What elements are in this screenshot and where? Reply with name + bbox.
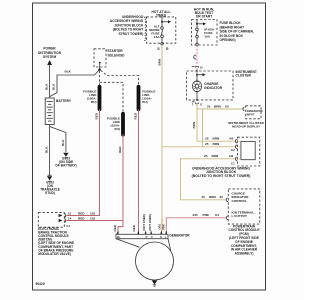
svg-text:BLK: BLK (61, 139, 65, 146)
ground G101 (55, 153, 76, 168)
wire battery negative branch to ground G101 (BLK) (50, 127, 66, 153)
svg-text:BRN: BRN (158, 58, 162, 65)
svg-text:SOLENOID: SOLENOID (108, 53, 126, 57)
svg-text:H6: H6 (229, 154, 233, 158)
svg-text:OR START: OR START (196, 15, 213, 19)
svg-text:235: 235 (193, 213, 198, 217)
svg-text:OF BATTERY): OF BATTERY) (55, 163, 76, 167)
wire ALT sense continues to generator S (158, 147, 162, 232)
svg-text:C2: C2 (231, 148, 235, 152)
generator (116, 234, 190, 280)
svg-text:CLUSTER: CLUSTER (236, 74, 252, 78)
svg-text:BRN: BRN (212, 154, 219, 158)
EBTCM module (38, 213, 70, 228)
svg-text:(NOT USED): (NOT USED) (142, 214, 146, 230)
svg-text:GENERATOR: GENERATOR (169, 234, 190, 238)
svg-text:102: 102 (90, 211, 95, 215)
svg-text:BRN: BRN (209, 195, 216, 199)
wire battery positive to power distribution (BLK) (45, 65, 56, 99)
pin S at fuse box bottom (157, 43, 169, 51)
svg-text:BLK: BLK (52, 83, 56, 90)
svg-text:+: + (44, 98, 46, 102)
wire 25 BRN A6 to junction block (197, 137, 237, 142)
svg-text:OPENING): OPENING) (220, 38, 236, 42)
fuse block box (IP fuse) (192, 20, 218, 46)
node cluster feed junction with arrow (196, 73, 206, 81)
node feed junction with arrow inside IP fuse box (196, 20, 206, 44)
wire 235 PNK G1 from PCM to generator L (163, 213, 227, 234)
svg-text:CONTROL: CONTROL (232, 199, 247, 203)
svg-text:L OUTPUT: L OUTPUT (232, 214, 248, 218)
pin 13 label and wire label RED 102 (68, 211, 96, 215)
node HOT IN RUN BULB TEST OR START (194, 8, 214, 19)
pin E connector below cluster (192, 99, 203, 107)
node POWER DISTRIBUTION SYSTEM (38, 47, 62, 66)
svg-text:A2: A2 (225, 104, 229, 108)
svg-text:BLK: BLK (45, 146, 49, 153)
instrument cluster (187, 70, 257, 100)
border frame (33, 3, 266, 290)
wire battery branch to starter solenoid (BLK) (50, 70, 99, 97)
generator pin letters (117, 232, 168, 235)
PCM module (226, 189, 260, 224)
wire lamp to cluster bottom pin (196, 91, 198, 100)
svg-text:BRN: BRN (213, 137, 220, 141)
ground at generator (152, 280, 158, 286)
node B junction at starter solenoid (98, 68, 100, 70)
svg-text:INPUT: INPUT (247, 112, 255, 116)
svg-text:25: 25 (207, 104, 211, 108)
svg-text:PNK: PNK (203, 213, 210, 217)
svg-text:13: 13 (68, 211, 72, 215)
node feed junction with arrow inside fuse box (161, 17, 171, 43)
generator connector pin ticks (pins A-B, incl. NOT USED) (118, 214, 166, 234)
svg-text:RED: RED (78, 211, 85, 215)
svg-text:BLK: BLK (45, 83, 49, 90)
junction block / ALT SENSE fuse box (147, 17, 176, 43)
svg-text:25: 25 (204, 154, 208, 158)
svg-text:ASSEMBLY): ASSEMBLY) (235, 252, 254, 256)
ground G102 (40, 175, 61, 195)
svg-text:STRUT TOWER): STRUT TOWER) (118, 32, 143, 36)
svg-text:RED: RED (113, 224, 117, 231)
svg-text:BRN: BRN (192, 121, 196, 128)
svg-text:15A: 15A (154, 35, 160, 39)
svg-text:INDICATOR: INDICATOR (204, 86, 222, 90)
svg-text:A6: A6 (229, 137, 233, 141)
svg-text:14: 14 (68, 217, 72, 221)
PCM caption (229, 224, 261, 255)
svg-text:-: - (45, 121, 46, 125)
node HOT AT ALL TIMES (151, 10, 170, 18)
svg-text:(NOT USED): (NOT USED) (148, 214, 152, 230)
svg-text:C4: C4 (66, 224, 70, 228)
svg-text:BLK: BLK (65, 70, 72, 74)
svg-text:25: 25 (205, 142, 209, 146)
wire RED from right fusible link to generator (132, 109, 138, 234)
wire BRN from cluster down (192, 103, 197, 141)
svg-text:BRN: BRN (213, 142, 220, 146)
wire battery negative to ground G102 (BLK) (45, 125, 50, 177)
svg-text:BRN: BRN (214, 104, 221, 108)
svg-text:PNK: PNK (163, 224, 166, 229)
wire dashed bus to middle fusible link (100, 82, 124, 113)
fuse IP-IGN 10A (196, 28, 215, 39)
fusible link A (left) (83, 87, 99, 109)
fuse ALT SENSE 15A (149, 24, 163, 39)
svg-text:90420: 90420 (36, 282, 45, 286)
svg-text:RED: RED (134, 112, 138, 119)
wire RED from left fusible link to EBTCM pin 13 (66, 109, 99, 216)
charge indicator lamp (192, 81, 222, 92)
fuse block caption (220, 21, 255, 42)
svg-text:GENERATOR: GENERATOR (247, 109, 263, 113)
pin at IP fuse box bottom (196, 43, 198, 45)
wire 25 BRN to junction block pin C2 (162, 142, 237, 152)
svg-text:BU): BU) (91, 100, 97, 104)
svg-text:B+: B+ (117, 235, 121, 239)
svg-text:35: 35 (220, 195, 224, 199)
generator input box (head-up display) (228, 106, 265, 129)
pin 14 label and wire label RED 102 (68, 217, 96, 221)
wire BRN alt sense from fuse down (158, 45, 162, 147)
svg-text:RED: RED (118, 146, 122, 153)
svg-text:P: P (146, 235, 148, 239)
svg-text:G: G (166, 47, 169, 51)
wire dashed bus solenoid junction down to left fusible link (99, 71, 101, 87)
svg-text:SYSTEM: SYSTEM (43, 55, 57, 59)
svg-text:C1: C1 (231, 162, 235, 166)
svg-text:S: S (160, 235, 162, 239)
wire dashed bus to right fusible link (101, 70, 139, 86)
starter solenoid (94, 49, 125, 70)
battery (44, 98, 72, 126)
svg-text:HEAD-UP DISPLAY: HEAD-UP DISPLAY (232, 125, 261, 129)
wire 25 BRN H6 from junction block to PCM (181, 154, 237, 200)
EBTCM caption (38, 227, 74, 256)
wire RED from middle fusible link to EBTCM pin 14 and generator B+ (66, 134, 123, 234)
svg-text:ORG: ORG (158, 224, 161, 230)
svg-text:BU): BU) (115, 127, 121, 131)
svg-text:BATTERY: BATTERY (56, 99, 72, 103)
svg-text:10A: 10A (204, 35, 210, 39)
fusible link B (middle) (107, 114, 123, 135)
svg-text:MODULATOR VALVE): MODULATOR VALVE) (38, 252, 71, 256)
svg-text:STUD): STUD) (45, 191, 55, 195)
svg-text:RED: RED (95, 112, 99, 119)
underhood accessory wiring junction block (192, 137, 260, 178)
svg-text:102: 102 (90, 217, 95, 221)
wire PNK from IP fuse to instrument cluster (192, 46, 203, 75)
svg-text:RED: RED (132, 224, 136, 231)
svg-text:G1: G1 (215, 213, 219, 217)
svg-text:(BOLTED TO RIGHT STRUT TOWER): (BOLTED TO RIGHT STRUT TOWER) (192, 174, 251, 178)
wire 25 BRN A2 to generator input (197, 108, 244, 110)
svg-text:BU): BU) (142, 100, 148, 104)
svg-text:25: 25 (202, 195, 206, 199)
svg-text:25: 25 (205, 137, 209, 141)
wire 25 BRN branch down to junction block pin C2 (202, 109, 204, 147)
svg-text:RED: RED (78, 217, 85, 221)
fusible link C (right) (139, 87, 156, 109)
underhood junction block label (top) (110, 15, 145, 41)
